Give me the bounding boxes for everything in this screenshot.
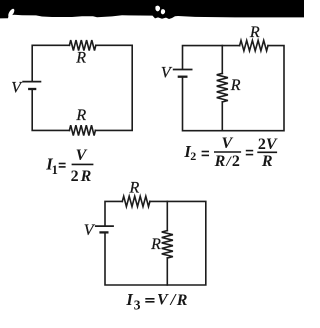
svg-text:2: 2 [190,149,196,163]
battery V (circuit 1) [22,82,41,89]
svg-text:R: R [75,49,86,66]
svg-text:R: R [261,153,273,170]
svg-text:V: V [157,291,169,308]
svg-text:V: V [84,222,96,239]
svg-text:I: I [125,290,133,309]
svg-text:1: 1 [52,163,58,177]
svg-text:V: V [221,135,233,152]
svg-text:R: R [129,180,140,197]
svg-text:V: V [161,65,173,82]
wire: circuit 3 outer loop [105,201,206,285]
svg-text:R: R [150,236,161,253]
svg-text:R/2: R/2 [214,153,240,170]
wire: circuit 2 outer loop [183,46,285,131]
svg-text:V: V [11,80,23,97]
resistor R (circuit 3, middle branch) [162,231,173,258]
formula I2 = V/(R/2) = 2V/R [183,135,277,170]
svg-text:3: 3 [134,297,141,312]
battery V (circuit 3) [95,226,114,232]
svg-text:R: R [176,292,188,309]
formula I3 = V/R [125,290,187,313]
wire: circuit 2 middle branch [221,46,223,131]
resistor R (circuit 2, middle branch) [217,73,228,102]
svg-text:R: R [249,24,260,41]
battery V (circuit 2) [173,70,193,77]
svg-text:R: R [230,77,241,94]
svg-text:2V: 2V [258,136,278,153]
resistor R (circuit 3, top) [122,196,150,206]
formula I1 = V/2R [45,147,93,185]
svg-text:V: V [76,147,88,164]
wire: circuit 3 middle branch [166,201,168,285]
resistor R (circuit 1, top) [69,40,95,50]
scan artifact: black band at top [0,0,304,19]
wire: circuit 1 loop (top/right/bottom sides) [32,45,132,130]
svg-text:R: R [75,107,86,124]
resistor R (circuit 2, top) [240,40,268,50]
resistor R (circuit 1, bottom) [69,125,95,135]
svg-text:2R: 2R [71,168,94,185]
